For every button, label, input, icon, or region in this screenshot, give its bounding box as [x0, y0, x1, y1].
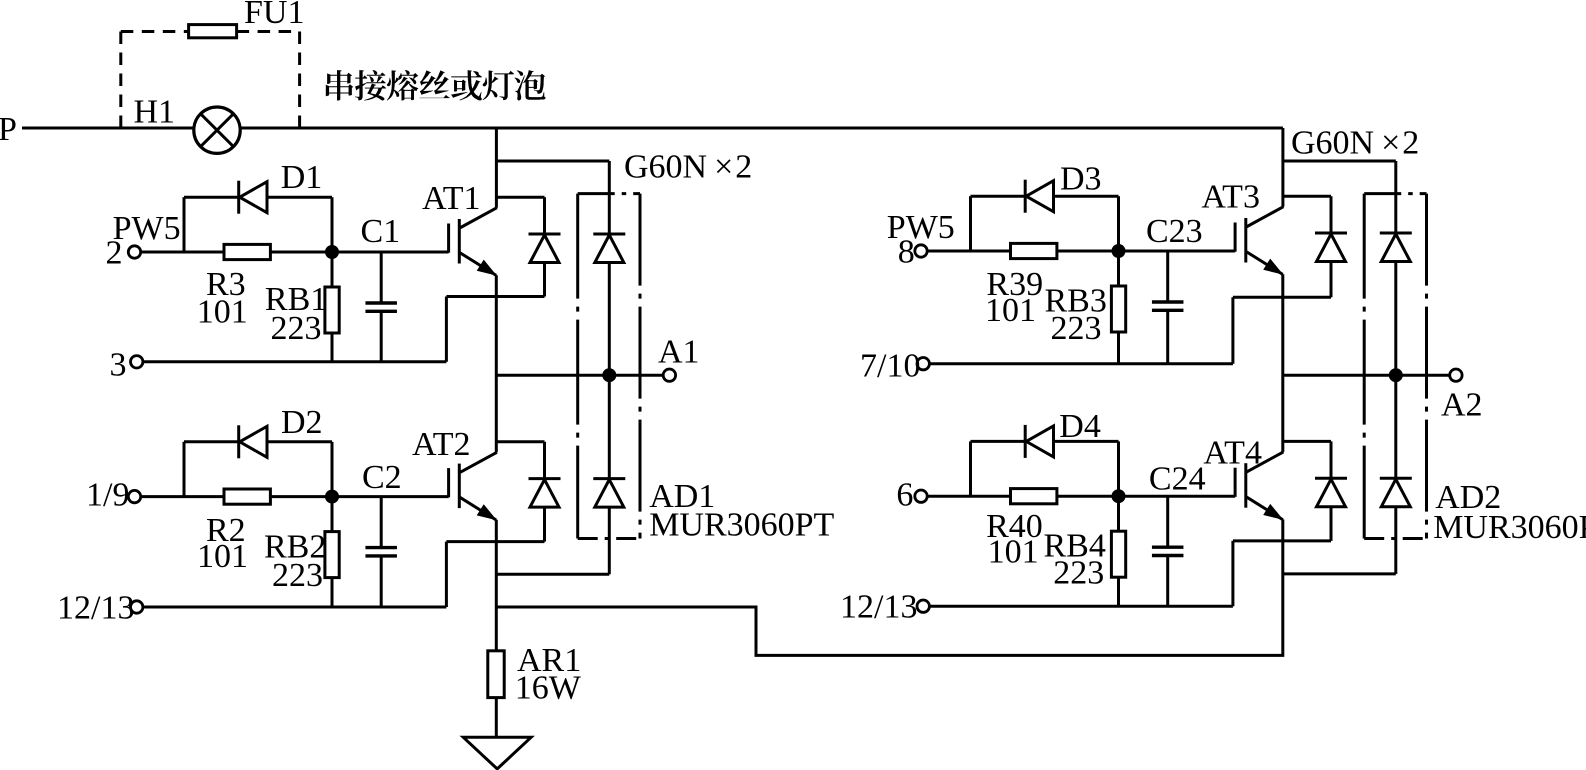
svg-text:101: 101	[985, 292, 1036, 329]
svg-text:2: 2	[106, 235, 123, 272]
svg-text:AT2: AT2	[412, 426, 471, 463]
svg-text:12/13: 12/13	[840, 589, 917, 626]
svg-text:H1: H1	[134, 94, 176, 131]
svg-text:223: 223	[1053, 555, 1104, 592]
svg-text:8: 8	[898, 234, 915, 271]
svg-text:D1: D1	[281, 159, 323, 196]
svg-text:FU1: FU1	[244, 0, 304, 31]
svg-text:C23: C23	[1146, 213, 1203, 250]
svg-text:G60N×2: G60N×2	[624, 149, 752, 186]
svg-text:101: 101	[988, 534, 1039, 571]
svg-text:16W: 16W	[515, 670, 582, 707]
svg-text:AT3: AT3	[1201, 179, 1260, 216]
svg-text:12/13: 12/13	[57, 590, 134, 627]
svg-text:D2: D2	[281, 404, 323, 441]
svg-text:D4: D4	[1059, 408, 1101, 445]
svg-text:C1: C1	[361, 213, 401, 250]
svg-text:223: 223	[272, 557, 323, 594]
svg-text:G60N×2: G60N×2	[1291, 125, 1419, 162]
svg-text:D3: D3	[1060, 161, 1102, 198]
svg-text:C24: C24	[1149, 461, 1206, 498]
svg-text:AT1: AT1	[422, 180, 481, 217]
svg-text:MUR3060PT: MUR3060PT	[649, 507, 834, 544]
svg-text:7/10: 7/10	[860, 348, 920, 385]
svg-text:PW5: PW5	[113, 210, 181, 247]
svg-text:MUR3060P: MUR3060P	[1433, 509, 1586, 546]
svg-text:P: P	[0, 111, 17, 148]
svg-text:101: 101	[197, 538, 248, 575]
svg-text:A1: A1	[658, 334, 700, 371]
svg-text:101: 101	[197, 294, 248, 331]
svg-text:1/9: 1/9	[86, 477, 129, 514]
svg-text:AT4: AT4	[1203, 435, 1262, 472]
svg-text:A2: A2	[1441, 387, 1483, 424]
svg-text:6: 6	[896, 477, 913, 514]
svg-text:223: 223	[271, 310, 322, 347]
svg-text:223: 223	[1051, 310, 1102, 347]
svg-text:C2: C2	[362, 459, 402, 496]
svg-text:3: 3	[110, 347, 127, 384]
